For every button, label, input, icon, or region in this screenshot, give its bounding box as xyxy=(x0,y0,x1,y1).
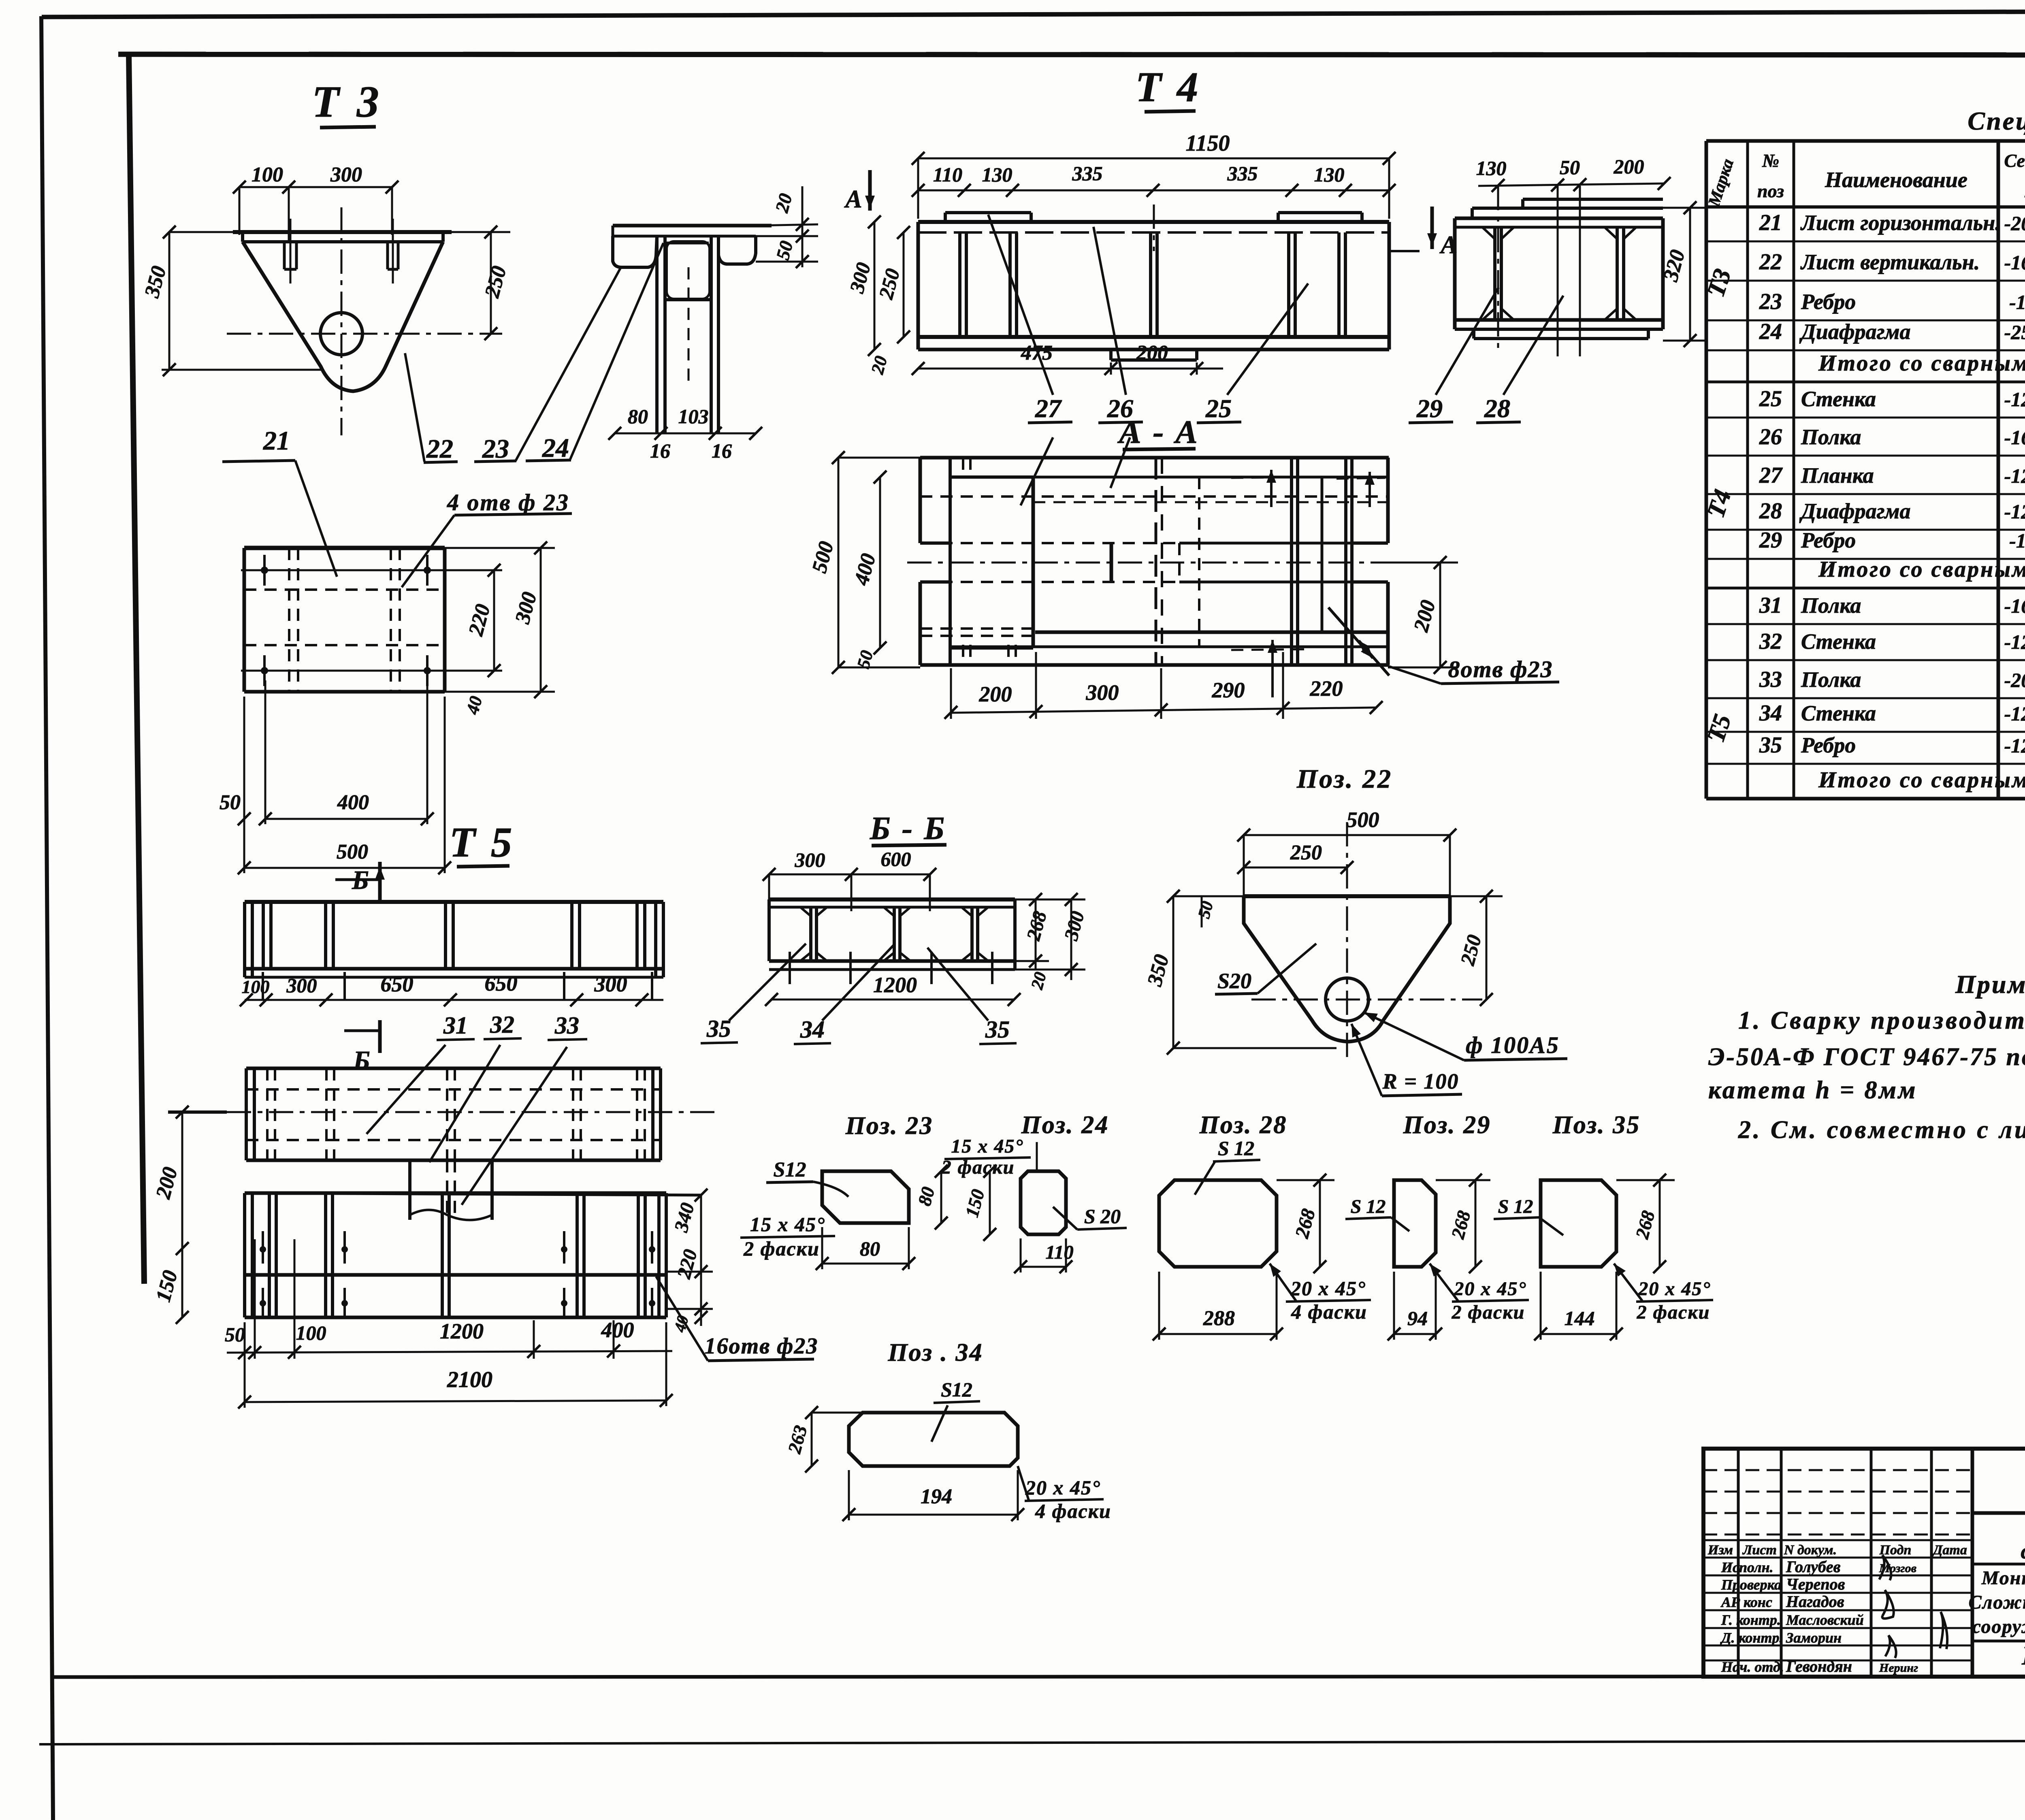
Poz29 plate outline xyxy=(1394,1180,1436,1267)
svg-text:1150: 1150 xyxy=(1186,131,1230,156)
A-A weld arrow top xyxy=(1270,470,1273,507)
svg-text:20 х 45°: 20 х 45° xyxy=(1454,1278,1526,1300)
T5 plan hidden flange lines xyxy=(246,1088,661,1091)
svg-text:S20: S20 xyxy=(1217,969,1251,993)
T4 web stiffeners xyxy=(958,232,961,337)
T5 plan view ends xyxy=(245,1068,248,1160)
A-A flange edge thick lower xyxy=(1035,631,1388,634)
sheet inner frame bottom line xyxy=(53,1676,2025,1677)
spec table row lines and cell text xyxy=(1706,241,2025,243)
spec table outer grid xyxy=(1706,139,2025,143)
T3 bracket vertical centerline xyxy=(341,207,343,435)
svg-text:Сложные вспомогательные: Сложные вспомогательные xyxy=(1969,1592,2025,1613)
svg-text:поз: поз xyxy=(1757,181,1784,201)
svg-text:4 отв ф 23: 4 отв ф 23 xyxy=(447,489,569,516)
svg-text:Поз . 34: Поз . 34 xyxy=(887,1339,983,1366)
plate 21 hidden web lines vertical xyxy=(288,548,290,692)
T4 end view top plate xyxy=(1472,207,1663,210)
svg-text:Г. контр.: Г. контр. xyxy=(1721,1612,1781,1628)
plate 21 hidden flange lines horizontal xyxy=(244,588,445,591)
svg-text:Д. контр.: Д. контр. xyxy=(1720,1630,1783,1646)
svg-text:Т 4: Т 4 xyxy=(1136,63,1201,111)
svg-text:600: 600 xyxy=(881,848,911,870)
T3 dim 250 right xyxy=(490,232,492,334)
svg-text:33: 33 xyxy=(1759,667,1782,692)
T4 dim row 110/130/335/335/130 xyxy=(918,190,1389,192)
svg-text:1. Сварку производить по ГО: 1. Сварку производить по ГОСТ 9467-75 эл… xyxy=(1738,1007,2025,1034)
A-A hidden lines lower xyxy=(920,627,1037,630)
T3 side view right flange lobe xyxy=(718,236,756,264)
Poz22 dim 250 right xyxy=(1486,896,1488,1000)
svg-text:Лист вертикальн.: Лист вертикальн. xyxy=(1800,250,1980,274)
svg-text:Поз. 28: Поз. 28 xyxy=(1199,1111,1287,1139)
svg-text:-20х300: -20х300 xyxy=(2004,212,2025,234)
T5 plan center line xyxy=(168,1110,227,1114)
svg-text:50: 50 xyxy=(1560,156,1580,179)
T3 bracket horizontal centerline xyxy=(227,333,502,335)
svg-text:Нач. отд.: Нач. отд. xyxy=(1721,1659,1784,1675)
svg-text:Диафрагма: Диафрагма xyxy=(1799,499,1911,523)
T3 bracket hole xyxy=(320,313,362,355)
plate 21 hole centerline row 1 xyxy=(241,569,502,571)
svg-text:Ребро: Ребро xyxy=(1801,733,1856,757)
sheet inner frame top line xyxy=(118,54,2025,55)
svg-text:Поз. 29: Поз. 29 xyxy=(1403,1111,1491,1139)
svg-text:Поз. 22: Поз. 22 xyxy=(1296,764,1392,794)
B-B dim 268/300/20 right xyxy=(1035,899,1037,970)
A-A leader line from 26 xyxy=(1111,437,1130,488)
B-B dim 1200 bottom xyxy=(772,999,1014,1001)
B-B second top line xyxy=(769,906,1015,909)
svg-text:21: 21 xyxy=(263,426,290,456)
Poz28 plate outline xyxy=(1159,1180,1277,1267)
svg-text:475: 475 xyxy=(1021,341,1053,364)
svg-text:2100: 2100 xyxy=(447,1367,492,1392)
svg-text:23: 23 xyxy=(482,434,509,464)
T3 side view web plate right (pos 22) xyxy=(710,236,713,433)
svg-text:-20х400: -20х400 xyxy=(2004,669,2025,691)
svg-text:Примечания:: Примечания: xyxy=(1955,970,2025,999)
svg-text:ф 100А5: ф 100А5 xyxy=(1466,1032,1560,1058)
svg-text:Полка: Полка xyxy=(1801,425,1861,449)
svg-text:650: 650 xyxy=(381,972,414,996)
svg-text:-12х94: -12х94 xyxy=(2009,529,2025,552)
Poz34 dim 194 bottom xyxy=(849,1514,1018,1516)
svg-text:200: 200 xyxy=(1136,341,1168,364)
T4 section mark A right xyxy=(1430,207,1434,249)
svg-text:28: 28 xyxy=(1484,394,1510,423)
T3 side view bottom dim line 80/103 xyxy=(615,433,756,435)
svg-text:-16х200: -16х200 xyxy=(2004,426,2025,449)
svg-text:27: 27 xyxy=(1759,463,1783,488)
T4 beam top flange xyxy=(918,220,1389,224)
T5 bottom view right end xyxy=(657,1193,661,1317)
Poz23 dim 80 right xyxy=(940,1171,942,1223)
A-A mid hidden line upper xyxy=(920,542,1179,544)
svg-text:S12: S12 xyxy=(941,1378,972,1401)
svg-text:N докум.: N докум. xyxy=(1784,1543,1837,1558)
svg-text:Масловский: Масловский xyxy=(1786,1612,1864,1628)
svg-text:Наименование: Наименование xyxy=(1825,168,1967,192)
svg-text:Исполн.: Исполн. xyxy=(1721,1559,1773,1575)
svg-text:22: 22 xyxy=(1759,249,1782,275)
svg-text:R = 100: R = 100 xyxy=(1382,1069,1459,1093)
svg-text:Т 3: Т 3 xyxy=(312,77,382,126)
svg-text:S 12: S 12 xyxy=(1498,1196,1533,1217)
svg-text:2 фаски: 2 фаски xyxy=(743,1237,820,1260)
A-A stiffener pair right xyxy=(1344,458,1347,665)
svg-text:Спецификация металла: Спецификация металла xyxy=(1967,107,2025,135)
B-B top flange line xyxy=(769,897,1015,901)
T5 bottom view hole marks row1 xyxy=(262,1231,264,1264)
T3 bracket dim line 100/300 xyxy=(239,186,392,188)
A-A bottom dim chain 200/300/290/220 xyxy=(951,708,1376,713)
svg-text:Монтаж пролетн. строений: Монтаж пролетн. строений xyxy=(1981,1567,2025,1589)
svg-text:-12х265: -12х265 xyxy=(2004,388,2025,411)
B-B I-beam webs xyxy=(809,907,812,961)
B-B bottom flange line xyxy=(769,959,1015,963)
A-A hidden lines upper xyxy=(920,495,1388,498)
svg-text:27: 27 xyxy=(1035,394,1062,423)
Poz29 dim 94 bottom xyxy=(1394,1333,1436,1335)
A-A plate-21 inner rectangle xyxy=(950,475,1033,479)
T5 top view left end plates xyxy=(243,902,246,977)
svg-text:4 фаски: 4 фаски xyxy=(1035,1500,1111,1522)
svg-text:16отв ф23: 16отв ф23 xyxy=(705,1334,819,1359)
Poz23 dim 80 bottom xyxy=(822,1263,909,1265)
svg-text:335: 335 xyxy=(1227,162,1258,185)
svg-text:300: 300 xyxy=(795,848,825,871)
T5 dim 2100 bottom xyxy=(245,1400,666,1402)
svg-text:50: 50 xyxy=(220,791,241,814)
B-B hole ticks below xyxy=(789,952,791,984)
T3 side view diaphragm 24 between webs xyxy=(665,242,709,245)
B-B dim 300/600 top xyxy=(769,874,930,876)
svg-text:Полка: Полка xyxy=(1801,667,1861,692)
svg-text:Планка: Планка xyxy=(1801,463,1874,488)
Poz24 dim 150 left xyxy=(989,1171,991,1234)
plate 21 dim 400 bottom xyxy=(265,818,427,820)
svg-text:130: 130 xyxy=(1314,163,1345,186)
svg-text:31: 31 xyxy=(1759,593,1782,618)
T5 plan end tab (stenka 34) xyxy=(408,1160,411,1220)
svg-text:Э-50А-Ф ГОСТ 9467-75 по все: Э-50А-Ф ГОСТ 9467-75 по всему контуру пр… xyxy=(1708,1043,2025,1071)
T4 end view dim 320 right xyxy=(1689,208,1691,341)
svg-text:Проверка: Проверка xyxy=(1721,1577,1782,1593)
T4 end view I-web left xyxy=(1493,227,1496,320)
T3 side view web plate left (pos 22) xyxy=(655,236,659,433)
svg-text:25: 25 xyxy=(1205,394,1232,423)
svg-text:500: 500 xyxy=(1347,808,1379,832)
svg-text:Поз. 35: Поз. 35 xyxy=(1552,1111,1641,1139)
A-A stiffener pair right-mid xyxy=(1290,458,1293,665)
T3 rib 23 right xyxy=(386,242,389,269)
T3 side view top flange xyxy=(613,224,772,228)
svg-text:1200: 1200 xyxy=(440,1319,484,1343)
A-A cut dashed verticals (weld seam) xyxy=(1155,458,1157,665)
svg-text:130: 130 xyxy=(1476,157,1507,179)
svg-text:2 фаски: 2 фаски xyxy=(1637,1302,1710,1323)
A-A center tab webs xyxy=(1110,543,1113,582)
svg-text:Лист горизонтальн.: Лист горизонтальн. xyxy=(1800,211,2001,235)
svg-text:Итого со сварными швами: Итого со сварными швами xyxy=(1818,351,2025,376)
A-A hole diagonal arrows bottom-right xyxy=(1328,607,1373,658)
svg-text:300: 300 xyxy=(286,974,317,997)
A-A center line xyxy=(907,562,1417,564)
svg-text:110: 110 xyxy=(1045,1242,1073,1263)
svg-text:300: 300 xyxy=(330,163,362,186)
svg-text:2. См. совместно с листами: 2. См. совместно с листами №№ 32 + 35 xyxy=(1738,1116,2025,1144)
T4 end view I-web right xyxy=(1616,227,1619,320)
plate 21 dim 300 xyxy=(540,548,542,692)
svg-text:400: 400 xyxy=(337,791,369,814)
svg-text:35: 35 xyxy=(706,1015,731,1042)
A-A weld arrow top right xyxy=(1368,472,1371,507)
svg-text:335: 335 xyxy=(1072,162,1103,185)
svg-text:Заморин: Заморин xyxy=(1786,1630,1842,1646)
plate 21 dim 220 xyxy=(493,570,495,671)
T4 end view dim line 130/50/200 xyxy=(1478,183,1664,186)
T5 bottom view bottom edge xyxy=(245,1316,666,1319)
T5 bottom right dim 340/220/40 xyxy=(700,1195,702,1326)
svg-text:23: 23 xyxy=(1759,289,1782,314)
T3 bracket gusset outline 22 xyxy=(243,242,443,391)
svg-text:29: 29 xyxy=(1759,528,1782,553)
svg-text:50: 50 xyxy=(225,1323,245,1346)
svg-text:32: 32 xyxy=(1759,629,1782,654)
svg-text:Гевондян: Гевондян xyxy=(1786,1657,1852,1675)
A-A hidden stud lines top-left xyxy=(962,458,964,478)
svg-text:80: 80 xyxy=(628,405,648,428)
svg-text:-12х200: -12х200 xyxy=(2004,465,2025,487)
svg-text:130: 130 xyxy=(982,163,1013,186)
svg-text:-12х144: -12х144 xyxy=(2004,734,2025,757)
T4 bottom splice plate xyxy=(1111,348,1197,351)
Poz34 plate outline xyxy=(849,1413,1018,1466)
T4 dim 250 left xyxy=(903,232,905,337)
T5 plan view top edge xyxy=(246,1067,661,1070)
plate 21 hole centerline row 2 xyxy=(241,670,502,672)
svg-text:300: 300 xyxy=(1086,680,1119,705)
svg-text:S 12: S 12 xyxy=(1351,1196,1386,1217)
A-A dashed stiffener vertical xyxy=(1198,477,1200,647)
T5 bottom view stiffeners xyxy=(268,1193,271,1317)
svg-text:35: 35 xyxy=(1759,733,1782,758)
T5 top view stiffeners xyxy=(262,902,265,969)
svg-text:34: 34 xyxy=(1759,701,1782,726)
T3 bracket top flange plate 21 xyxy=(233,230,452,234)
svg-text:34: 34 xyxy=(800,1016,825,1043)
svg-text:194: 194 xyxy=(921,1485,952,1508)
A-A left notch lines xyxy=(920,541,950,545)
T4 end view dim extension verticals xyxy=(1497,186,1499,354)
svg-text:4 фаски: 4 фаски xyxy=(1291,1300,1367,1323)
svg-text:290: 290 xyxy=(1212,678,1245,702)
svg-text:220: 220 xyxy=(1310,676,1343,701)
svg-text:S12: S12 xyxy=(774,1158,806,1181)
T4 end view upper splice plate right xyxy=(1523,198,1663,201)
A-A dim 500 left xyxy=(838,458,840,667)
svg-text:16: 16 xyxy=(712,439,732,462)
svg-text:80: 80 xyxy=(860,1237,880,1260)
plate 21 outline xyxy=(244,546,445,550)
Poz22 dim 500 top xyxy=(1244,834,1450,836)
svg-text:288: 288 xyxy=(1203,1307,1235,1330)
svg-text:Лист: Лист xyxy=(1742,1543,1777,1558)
B-B right end xyxy=(1013,899,1017,970)
Poz34 dim 263 left xyxy=(811,1413,813,1466)
spec table column lines xyxy=(1746,141,1749,799)
svg-text:Б - Б: Б - Б xyxy=(870,811,946,846)
svg-text:500: 500 xyxy=(337,840,368,863)
T3 side view left flange lobe xyxy=(613,236,657,267)
svg-text:-12х268: -12х268 xyxy=(2004,500,2025,523)
svg-text:22: 22 xyxy=(426,434,453,464)
svg-text:24: 24 xyxy=(542,433,569,463)
T4 end view bottom flange xyxy=(1455,318,1663,322)
Poz28 dim 268 right xyxy=(1319,1180,1321,1267)
T4 end view bottom plates xyxy=(1474,329,1588,339)
T5 bottom view hole marks row2 xyxy=(262,1288,264,1318)
Poz22 plate outline xyxy=(1244,894,1450,898)
svg-text:Изм: Изм xyxy=(1707,1543,1733,1558)
svg-text:103: 103 xyxy=(678,405,709,428)
Poz22 vertical centerline xyxy=(1346,822,1348,1063)
svg-text:Черепов: Черепов xyxy=(1786,1575,1845,1593)
T3 rib 23 left xyxy=(283,242,286,269)
A-A leader line from 27 xyxy=(1021,437,1053,505)
svg-text:2 фаски: 2 фаски xyxy=(941,1157,1015,1178)
svg-text:Нагадов: Нагадов xyxy=(1786,1592,1844,1611)
svg-text:200: 200 xyxy=(1614,155,1644,178)
Poz28 dim 288 bottom xyxy=(1159,1333,1277,1335)
svg-text:33: 33 xyxy=(554,1012,579,1039)
svg-text:24: 24 xyxy=(1759,319,1782,344)
T3 dim 350 left xyxy=(168,232,171,370)
title block signature squiggles xyxy=(1879,1555,1891,1580)
Poz22 dim 250 xyxy=(1244,867,1347,869)
T3 side view web centerline xyxy=(688,267,690,381)
sheet outer left border xyxy=(41,16,53,1820)
svg-text:15 х 45°: 15 х 45° xyxy=(750,1213,825,1236)
svg-text:Итого со сварными швами:: Итого со сварными швами: xyxy=(1818,557,2025,582)
title block signature area rows xyxy=(1703,1469,1972,1471)
svg-text:Диафрагма: Диафрагма xyxy=(1799,320,1911,344)
svg-text:31: 31 xyxy=(443,1012,468,1039)
title block outline xyxy=(1703,1449,2025,1677)
svg-text:сооружения и устройства: сооружения и устройства xyxy=(1972,1616,2025,1637)
svg-text:28: 28 xyxy=(1759,499,1782,524)
T4 end view top flange xyxy=(1455,217,1663,220)
T5 top view flange bottom xyxy=(245,967,663,971)
A-A horizontal second line top xyxy=(1033,476,1388,479)
Poz24 plate outline xyxy=(1021,1171,1066,1234)
T5 top view lower flange edge xyxy=(245,976,663,979)
svg-text:1200: 1200 xyxy=(873,973,917,997)
svg-text:200: 200 xyxy=(979,682,1012,706)
svg-text:20 х 45°: 20 х 45° xyxy=(1025,1476,1101,1499)
T4 top splice plate 27 left xyxy=(945,211,1031,214)
Poz23 plate outline xyxy=(822,1171,909,1223)
svg-text:Полка: Полка xyxy=(1801,593,1861,618)
svg-text:250: 250 xyxy=(1290,841,1322,864)
svg-text:А - А: А - А xyxy=(1117,413,1199,450)
svg-text:Поз. 23: Поз. 23 xyxy=(845,1112,934,1140)
title block signature area verticals xyxy=(1737,1449,1740,1677)
B-B left end xyxy=(767,899,771,961)
Poz35 dim 144 bottom xyxy=(1541,1333,1616,1335)
T4 dim 300 left xyxy=(874,222,876,350)
T5 plan stiffener hidden pairs xyxy=(266,1068,269,1160)
T5 bottom view left end xyxy=(243,1193,246,1317)
T5 bottom view mid thick line (holes row) xyxy=(245,1273,666,1277)
svg-text:-12х265: -12х265 xyxy=(2004,631,2025,653)
T5 top view right end plates xyxy=(654,902,657,977)
svg-text:Неринг: Неринг xyxy=(1879,1661,1918,1675)
T5 section mark B bottom xyxy=(378,1020,382,1053)
svg-text:2 фаски: 2 фаски xyxy=(1452,1302,1525,1323)
svg-text:-16х350: -16х350 xyxy=(2004,251,2025,274)
T5 top view hole ticks xyxy=(262,972,264,1000)
svg-text:Голубев: Голубев xyxy=(1786,1558,1841,1576)
Poz22 horizontal centerline xyxy=(1251,999,1482,1001)
svg-text:32: 32 xyxy=(490,1011,514,1038)
A-A outline top xyxy=(920,456,1389,460)
svg-text:15 х 45°: 15 х 45° xyxy=(951,1136,1023,1157)
T4 beam left end xyxy=(917,222,920,350)
T4 beam bottom flange xyxy=(918,335,1389,339)
Poz22 hole xyxy=(1326,978,1368,1021)
svg-text:№: № xyxy=(1762,150,1779,171)
svg-text:100: 100 xyxy=(296,1321,326,1344)
T4 beam centerline xyxy=(1153,205,1155,251)
plate 21 hole marks xyxy=(263,555,266,586)
T4 dim 1150 top xyxy=(918,158,1389,160)
spec table header bottom line xyxy=(1706,205,2025,209)
A-A stiffener vertical thin xyxy=(1321,477,1324,632)
A-A outline right xyxy=(1386,458,1390,543)
A-A right notch lines xyxy=(1352,541,1388,545)
svg-text:94: 94 xyxy=(1407,1307,1428,1330)
svg-text:Марка Т.3 - Т5: Марка Т.3 - Т5 xyxy=(2021,1641,2025,1671)
A-A dim 400 left xyxy=(879,477,881,648)
svg-text:16: 16 xyxy=(650,439,670,462)
svg-text:Стенка: Стенка xyxy=(1801,387,1876,411)
svg-text:400: 400 xyxy=(601,1318,634,1342)
svg-text:25: 25 xyxy=(1759,386,1782,411)
svg-text:Т 5: Т 5 xyxy=(450,818,515,866)
svg-text:100: 100 xyxy=(242,976,270,997)
T4 top splice plate 27 right xyxy=(1278,211,1362,214)
svg-text:20 х 45°: 20 х 45° xyxy=(1638,1278,1711,1300)
svg-text:-25х140: -25х140 xyxy=(2004,321,2025,343)
T4 dim 475/200 below xyxy=(918,368,1223,370)
A-A outline bottom xyxy=(920,663,1389,667)
svg-text:100: 100 xyxy=(252,163,283,186)
T4 beam right end xyxy=(1388,222,1391,350)
Poz35 dim 268 right xyxy=(1659,1180,1661,1267)
T3 side dim 20/50 right xyxy=(801,186,804,267)
svg-text:20 х 45°: 20 х 45° xyxy=(1290,1277,1366,1300)
A-A dim 200 right xyxy=(1439,563,1441,667)
Poz22 dim 350 left xyxy=(1172,896,1174,1048)
A-A lower second line xyxy=(950,646,1388,648)
T5 bottom dim chain 50/100/1200/400 xyxy=(227,1351,672,1353)
svg-text:S 12: S 12 xyxy=(1218,1137,1254,1159)
svg-text:Стенка: Стенка xyxy=(1801,701,1876,725)
svg-text:144: 144 xyxy=(1565,1307,1595,1330)
svg-text:650: 650 xyxy=(485,971,518,995)
